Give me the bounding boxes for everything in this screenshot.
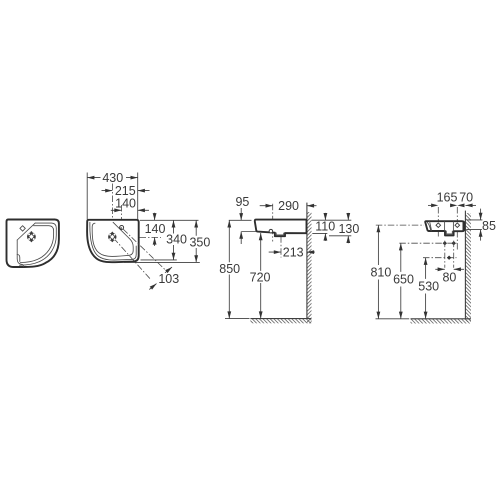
svg-text:70: 70 bbox=[459, 191, 473, 205]
dim 810 bbox=[377, 225, 379, 319]
dim 140 right bbox=[140, 213, 199, 246]
svg-text:430: 430 bbox=[102, 171, 123, 185]
dim 340 bbox=[141, 220, 177, 260]
side drain centerline bbox=[280, 224, 282, 257]
front horiz centerline bbox=[376, 224, 424, 226]
front basin body bbox=[425, 221, 464, 235]
side overflow circle bbox=[269, 229, 273, 233]
front floor line bbox=[411, 318, 472, 320]
dim 213 bbox=[269, 251, 315, 253]
side wall line bbox=[306, 203, 308, 319]
front floor hatch bbox=[411, 319, 472, 324]
side bump inner bbox=[276, 233, 284, 235]
dim 430 bbox=[87, 173, 138, 220]
svg-text:140: 140 bbox=[145, 222, 166, 236]
svg-text:213: 213 bbox=[283, 246, 304, 260]
plan inner rim bbox=[90, 222, 136, 260]
svg-text:340: 340 bbox=[166, 233, 187, 247]
svg-text:110: 110 bbox=[315, 220, 335, 234]
icon chamfer bbox=[17, 223, 35, 240]
front bump inner bbox=[446, 231, 452, 234]
side floor line bbox=[250, 318, 311, 320]
dim 720 bbox=[260, 233, 262, 319]
svg-text:350: 350 bbox=[189, 235, 210, 249]
svg-text:80: 80 bbox=[442, 271, 456, 285]
front wall line bbox=[464, 211, 466, 319]
icon outer body bbox=[7, 220, 59, 268]
icon tap hole bbox=[27, 232, 36, 241]
front panel line bbox=[444, 221, 446, 231]
dim 650 bbox=[400, 243, 402, 319]
plan dash-dot centerline vertical bbox=[111, 184, 113, 242]
svg-text:850: 850 bbox=[219, 262, 240, 276]
icon corner foot bbox=[17, 255, 20, 262]
front fixing level line 650 bbox=[399, 242, 456, 244]
dim 80 verticals bbox=[445, 241, 454, 268]
front fixing centerline 1 bbox=[437, 207, 439, 237]
front floor ext line bbox=[376, 318, 410, 320]
front fixing centerline 2 bbox=[456, 207, 458, 250]
svg-text:530: 530 bbox=[418, 280, 439, 294]
plan tap hole bbox=[108, 233, 116, 241]
side floor hatch bbox=[250, 319, 311, 324]
dim 130 bbox=[329, 213, 351, 243]
dim 103 bbox=[149, 267, 172, 289]
plan dash-dot hole line vertical bbox=[121, 205, 123, 227]
svg-text:130: 130 bbox=[338, 222, 359, 236]
svg-text:810: 810 bbox=[370, 266, 391, 280]
side tap centerline bbox=[272, 204, 274, 242]
dim 530 bbox=[425, 258, 427, 319]
front apron inner lines bbox=[427, 221, 431, 230]
svg-text:103: 103 bbox=[158, 272, 179, 286]
front fixing diamonds bbox=[436, 223, 441, 228]
icon inner rim bbox=[20, 223, 57, 265]
dim 350 bbox=[124, 220, 200, 262]
dim 850 bbox=[228, 220, 230, 318]
dim 110 bbox=[312, 213, 352, 241]
svg-text:85: 85 bbox=[482, 219, 496, 233]
dim 80 bbox=[435, 268, 464, 270]
plan small hole bbox=[120, 226, 124, 230]
plan bowl with chamfer bbox=[92, 222, 133, 256]
svg-text:650: 650 bbox=[393, 273, 414, 287]
svg-text:140: 140 bbox=[115, 197, 136, 211]
front fixing level line 530 bbox=[423, 257, 457, 259]
side wall hatch bbox=[307, 212, 312, 323]
plan diag centerline through tap bbox=[114, 238, 152, 280]
front wall block bbox=[463, 221, 465, 231]
side basin body bbox=[255, 220, 307, 237]
front wall hatch bbox=[465, 213, 471, 322]
svg-text:720: 720 bbox=[250, 270, 271, 284]
plan diag centerline through hole bbox=[123, 229, 165, 269]
side floor ext line bbox=[225, 318, 250, 320]
svg-text:165: 165 bbox=[437, 191, 458, 205]
icon front panel line bbox=[17, 240, 23, 267]
svg-text:290: 290 bbox=[278, 199, 299, 213]
icon bowl edge bbox=[20, 226, 53, 263]
svg-text:95: 95 bbox=[235, 195, 249, 209]
dim 215 bbox=[102, 190, 150, 192]
dim 85 bbox=[466, 209, 482, 241]
plan outer body bbox=[87, 220, 139, 262]
icon fixing diamond bbox=[20, 226, 25, 231]
